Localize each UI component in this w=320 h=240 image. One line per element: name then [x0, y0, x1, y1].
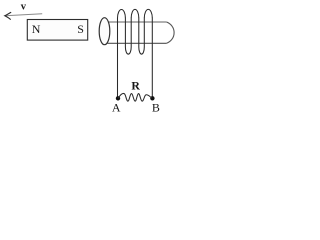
cylinder core body bottom edge — [107, 42, 166, 44]
velocity arrowhead — [5, 12, 11, 19]
node B junction dot — [150, 96, 154, 100]
coil turn 1 top arch — [118, 9, 126, 18]
coil leg L4 — [138, 18, 140, 47]
svg-text:A: A — [112, 101, 121, 115]
node A junction dot — [116, 96, 120, 100]
wire left lead to node A — [117, 18, 119, 99]
velocity arrow shaft — [5, 14, 42, 16]
cylinder right end cap arc — [167, 22, 175, 43]
coil bottom loop U2 — [139, 47, 145, 54]
coil turn 2 top arch — [131, 9, 139, 18]
svg-text:N: N — [32, 22, 41, 36]
coil leg L5 — [143, 18, 145, 47]
coil turn 3 top arch — [144, 9, 152, 18]
coil leg L3 — [130, 18, 132, 47]
cylinder left end cap ellipse — [99, 18, 110, 45]
svg-text:R: R — [131, 79, 140, 93]
svg-text:v: v — [21, 1, 27, 12]
svg-text:B: B — [152, 101, 160, 115]
wire right lead to node B — [151, 18, 153, 99]
coil bottom loop U1 — [125, 47, 131, 54]
coil leg L2 — [124, 18, 126, 47]
resistor R zigzag — [118, 93, 152, 101]
cylinder core body top edge — [108, 21, 166, 23]
svg-text:S: S — [77, 22, 84, 36]
bar magnet — [27, 20, 87, 41]
